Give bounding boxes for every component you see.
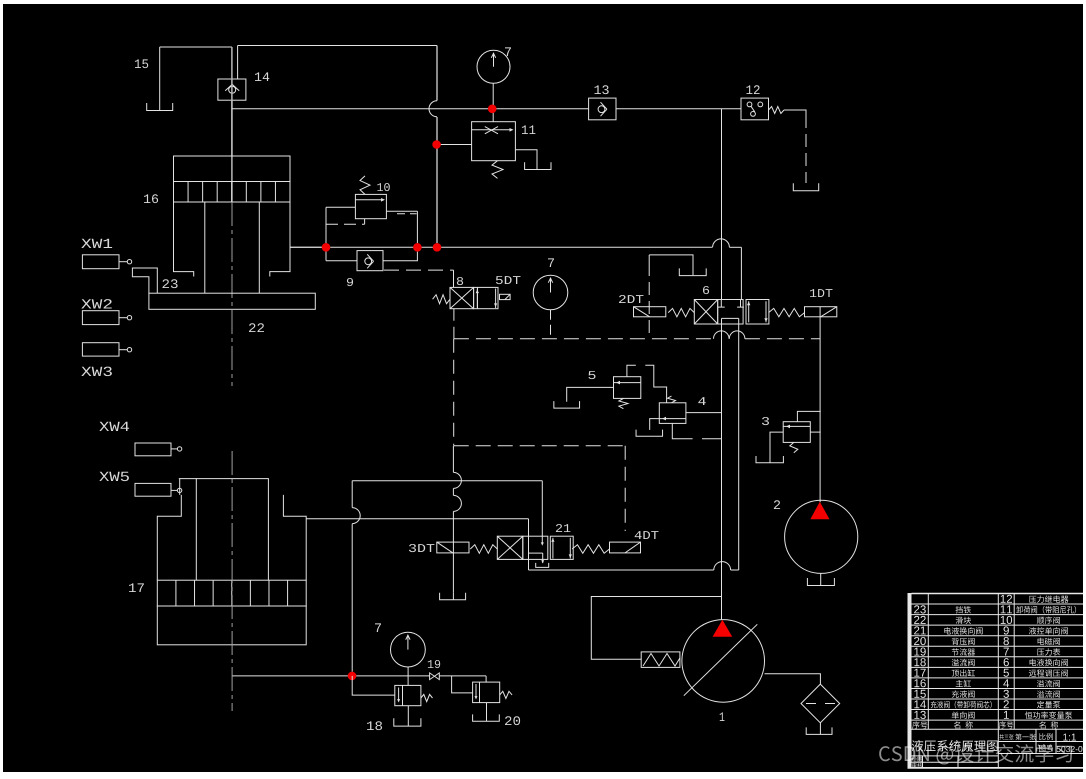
slider block 22 (149, 293, 315, 309)
gauge 7 stem wire (492, 83, 494, 121)
valve 3 pilot wire (797, 411, 820, 421)
cylinder 16 right wall (270, 202, 290, 277)
spring right of valve 6 (769, 308, 805, 316)
check valve glyph in 14 (225, 84, 232, 90)
cylinder 16 ram columns (204, 202, 206, 293)
spring of valve 11 (492, 161, 503, 179)
travel switch XW2 (82, 311, 119, 325)
label 4DT (635, 531, 659, 539)
title block part numbers left (914, 605, 926, 613)
title block part names left (956, 606, 972, 613)
spring of pressure switch 12 (769, 107, 785, 114)
red flow triangle motor 2 (810, 502, 829, 520)
label 6 (703, 286, 709, 294)
gauge 7 bottom stem (407, 667, 409, 685)
label XW5 (99, 472, 129, 481)
valve 18 drain stub (407, 706, 409, 726)
label 7 bottom gauge (375, 623, 381, 632)
solenoid tab 5DT (500, 294, 511, 299)
main wire y109 left segment (232, 108, 589, 110)
check valve 13 box (589, 98, 616, 120)
travel switch XW4 (135, 443, 171, 456)
label 11 (522, 125, 536, 134)
wire bottom branch to check valve 9 (326, 260, 357, 262)
dashed pilot wire x625 down (624, 446, 626, 531)
valve 5 drain wire (567, 387, 614, 401)
pressure gauge 7 bottom (391, 632, 426, 667)
directional valve 21 X box (497, 536, 523, 559)
CSDN watermark (879, 744, 1072, 765)
label 18 (367, 721, 382, 730)
signature cells (912, 757, 922, 762)
wire L1 from corner to valve 21 top (352, 480, 542, 482)
gauge 7 middle dashed stem (550, 310, 552, 339)
damping orifice X in valve 11 (485, 127, 498, 134)
charging valve 14 box (218, 79, 246, 100)
spring of valve 4 (668, 396, 676, 403)
spring of valve 10 (360, 176, 370, 195)
remote pressure valve 5 box (614, 377, 641, 399)
supply wire x721 from main line to valve 6 (721, 109, 723, 300)
dashed pilot bus y339 (454, 338, 713, 340)
pilot operated check valve 9 box (357, 251, 383, 271)
hop x352 over L2 (352, 508, 360, 524)
drain wire of valve 11 (515, 150, 537, 169)
tank symbol valve 5 drain (554, 401, 580, 408)
valve 21 through-riser (528, 519, 530, 570)
valve 3 drain wire (770, 432, 783, 463)
solenoid 3DT box (437, 542, 469, 553)
valve 20 drain stub (486, 703, 488, 722)
pilot wire to valve 11 (437, 144, 472, 146)
title block row lines (912, 603, 1084, 605)
wire valve 9 right to junction (383, 252, 417, 261)
travel switch XW5 (135, 483, 171, 496)
filter drain stub (819, 723, 821, 735)
relief valve 3 box (783, 422, 810, 443)
tank symbol valve 3 drain (756, 456, 783, 463)
tank symbol above valve 6 (679, 268, 706, 275)
drive coupling of pump 1 (641, 652, 680, 668)
wire to sequence valve 10 (326, 206, 355, 208)
junction dots on y247 (322, 243, 331, 252)
port wire from cylinder 16 (290, 246, 326, 248)
fixed pump 2 circle (785, 500, 858, 573)
title section lines (912, 755, 999, 757)
label 15 (135, 59, 148, 68)
tank symbol under filter (806, 727, 832, 734)
directional valve 21 right box (550, 536, 573, 559)
label 7 middle gauge (548, 258, 554, 267)
hops over supply risers (714, 331, 730, 339)
relief valve 4 box (659, 403, 686, 424)
junction dot valve 11 pilot (432, 140, 441, 149)
motor 2 drain stub (820, 573, 822, 585)
wire top to corner x437 (238, 45, 437, 47)
title block part names right (1029, 596, 1069, 603)
spring of valve 18 (421, 694, 433, 701)
wire valve 10 right side (386, 210, 417, 212)
wire into valve 20 top (485, 676, 487, 682)
valve 4 bottom drain wire (672, 423, 692, 438)
wire corner into valve 6 right top (740, 247, 742, 299)
label 1 (720, 712, 725, 721)
label 3 (762, 417, 769, 425)
label 9 (347, 278, 353, 286)
red flow triangle pump 1 (713, 620, 733, 637)
tank symbol under motor 2 (807, 578, 834, 586)
branch wire into valve 18 (352, 676, 395, 695)
unloading valve 11 box (472, 122, 516, 161)
label 3DT (409, 544, 435, 552)
dashed pilot wire y446 (454, 445, 626, 447)
wire left branch of 9/10 loop (325, 207, 327, 260)
solenoid valve 8 right box (474, 287, 498, 308)
label 10 (377, 183, 390, 191)
cylinder 16 hatch band (174, 182, 291, 203)
label 19 (428, 660, 440, 668)
main wire y109 mid segment (616, 108, 741, 110)
label XW1 (81, 239, 112, 248)
pilot riser x453 with hops (452, 446, 454, 472)
tank symbol valve 18 (394, 718, 421, 726)
spring left of valve 6 (668, 308, 694, 316)
label 2 (774, 500, 780, 509)
cylinder 17 right wall (283, 495, 306, 580)
suction wire loop of pump 1 (591, 597, 721, 660)
throttle 19 bowtie (430, 673, 440, 680)
branch wire into valve 20 left (452, 676, 473, 693)
cylinder 17 centerline (231, 451, 233, 711)
label 2DT (619, 295, 644, 303)
junction dot bottom (348, 672, 357, 681)
spring of valve 8 (433, 295, 450, 304)
label 17 (129, 583, 144, 592)
cylinder 17 left wall (157, 495, 181, 580)
hop over x721 on y247 (713, 239, 730, 247)
riser from y570 up to valve 6 (738, 324, 740, 570)
pilot dashed line of valve 10 (326, 223, 365, 225)
valve 4 outlet wire to riser (686, 412, 722, 414)
travel switch XW1 (82, 255, 119, 269)
variable pump 1 circle (682, 620, 765, 703)
pilot dashed wire from valve 9 to solenoid valve 8 (384, 269, 454, 271)
tank symbol valve 4 drain (636, 430, 663, 437)
spring left of valve 21 (470, 545, 497, 554)
cylinder 16 centerline (231, 202, 233, 386)
ejector cylinder 17 ram (196, 479, 268, 581)
tank symbol 12 drain (793, 183, 818, 191)
relief valve 18 box (395, 685, 421, 705)
drawing title text (912, 740, 998, 752)
wire top-left to tank 15 (160, 46, 232, 48)
label 5DT (496, 276, 521, 284)
tank symbol 15 (147, 103, 173, 111)
wire from 14 down to cylinder 16 (231, 47, 233, 156)
pressure gauge 7 middle (533, 275, 568, 310)
solenoid 2DT box (634, 307, 666, 317)
junction dot gauge7/valve11 (488, 105, 497, 114)
pressure gauge 7 top (477, 50, 510, 83)
solenoid 4DT box (610, 542, 641, 553)
label 22 (249, 323, 264, 332)
directional valve 21 middle section (523, 536, 548, 559)
cylinder 17 hatch band (157, 580, 306, 606)
supply riser x722 from valve 6 to pump (721, 324, 723, 620)
tank symbol valve 11 drain (525, 162, 551, 169)
mini tank under valve 21 (536, 563, 549, 568)
label 14 (255, 72, 269, 81)
spring right of valve 21 (572, 545, 609, 554)
directional valve 6 center box (718, 300, 743, 325)
solenoid 1DT box (805, 307, 837, 317)
label 21 (556, 524, 571, 532)
label 7 top gauge (505, 47, 511, 56)
solenoid valve 8 X box (450, 287, 474, 308)
stop iron 23 (132, 268, 157, 293)
spring of valve 20 (500, 691, 512, 698)
bottom wire y676 (233, 675, 430, 677)
wire vertical x352 down (351, 481, 353, 508)
valve 4 left drain to tank (650, 419, 660, 430)
dashed pilot wire x454 down (453, 339, 455, 446)
label 8 (457, 277, 463, 285)
title block column lines (927, 594, 929, 730)
dashed riser from drain bracket (648, 263, 650, 339)
wire hop over main line at x437 (429, 101, 437, 117)
directional valve 6 right box (746, 300, 769, 325)
cylinder 17 bottom block (157, 606, 306, 645)
filter diamond (801, 684, 840, 723)
directional valve 6 left X box (694, 300, 717, 325)
valve 3 outlet wire (810, 431, 820, 433)
sequence valve 10 box (355, 194, 386, 218)
travel switch XW3 (82, 343, 119, 356)
spring of valve 5 (619, 398, 628, 408)
label XW4 (99, 422, 129, 431)
wire from 1DT down to motor 2 (819, 307, 821, 503)
wire vertical x437 down to pilot junction (436, 46, 438, 101)
title block left bar (908, 593, 912, 769)
sheet info cells (1000, 734, 1014, 740)
label 23 (163, 279, 178, 288)
variable arrow across pump 1 (684, 624, 758, 695)
back pressure valve 20 box (473, 682, 500, 703)
spring of valve 3 (790, 442, 798, 452)
pressure switch 12 box (741, 98, 769, 120)
label 4 (698, 397, 705, 405)
title block part numbers right (1001, 595, 1012, 603)
label 13 (595, 85, 609, 94)
main cylinder 16 top block (174, 156, 291, 182)
label 1DT (810, 289, 833, 297)
title block header row (912, 721, 927, 729)
valve 5 remote pilot hook wires (627, 365, 636, 376)
hop y570 over x722 (714, 562, 731, 570)
tank symbol valve 20 (473, 714, 500, 721)
main wire y247 from cylinder to valve 6 (290, 246, 712, 248)
dashed drain of pressure switch 12 (784, 109, 790, 111)
label 16 (144, 194, 158, 203)
valve 8 drain dashed down (453, 309, 455, 339)
tank symbol under 3DT riser (440, 593, 466, 600)
label 5 (588, 371, 595, 379)
title block outer borders (912, 593, 1084, 595)
wire L2 from cylinder 17 to valve 21 (306, 518, 528, 520)
wire right branch of 9/10 loop (416, 211, 418, 243)
return wire y570 from valve 21 (529, 569, 714, 571)
pump outlet wire to filter (765, 674, 821, 684)
label 12 (746, 85, 759, 94)
label XW2 (81, 299, 111, 308)
cylinder 16 left wall (174, 202, 194, 277)
drain wire above valve 6 (649, 255, 693, 275)
label 20 (505, 716, 520, 725)
label XW3 (81, 367, 112, 377)
